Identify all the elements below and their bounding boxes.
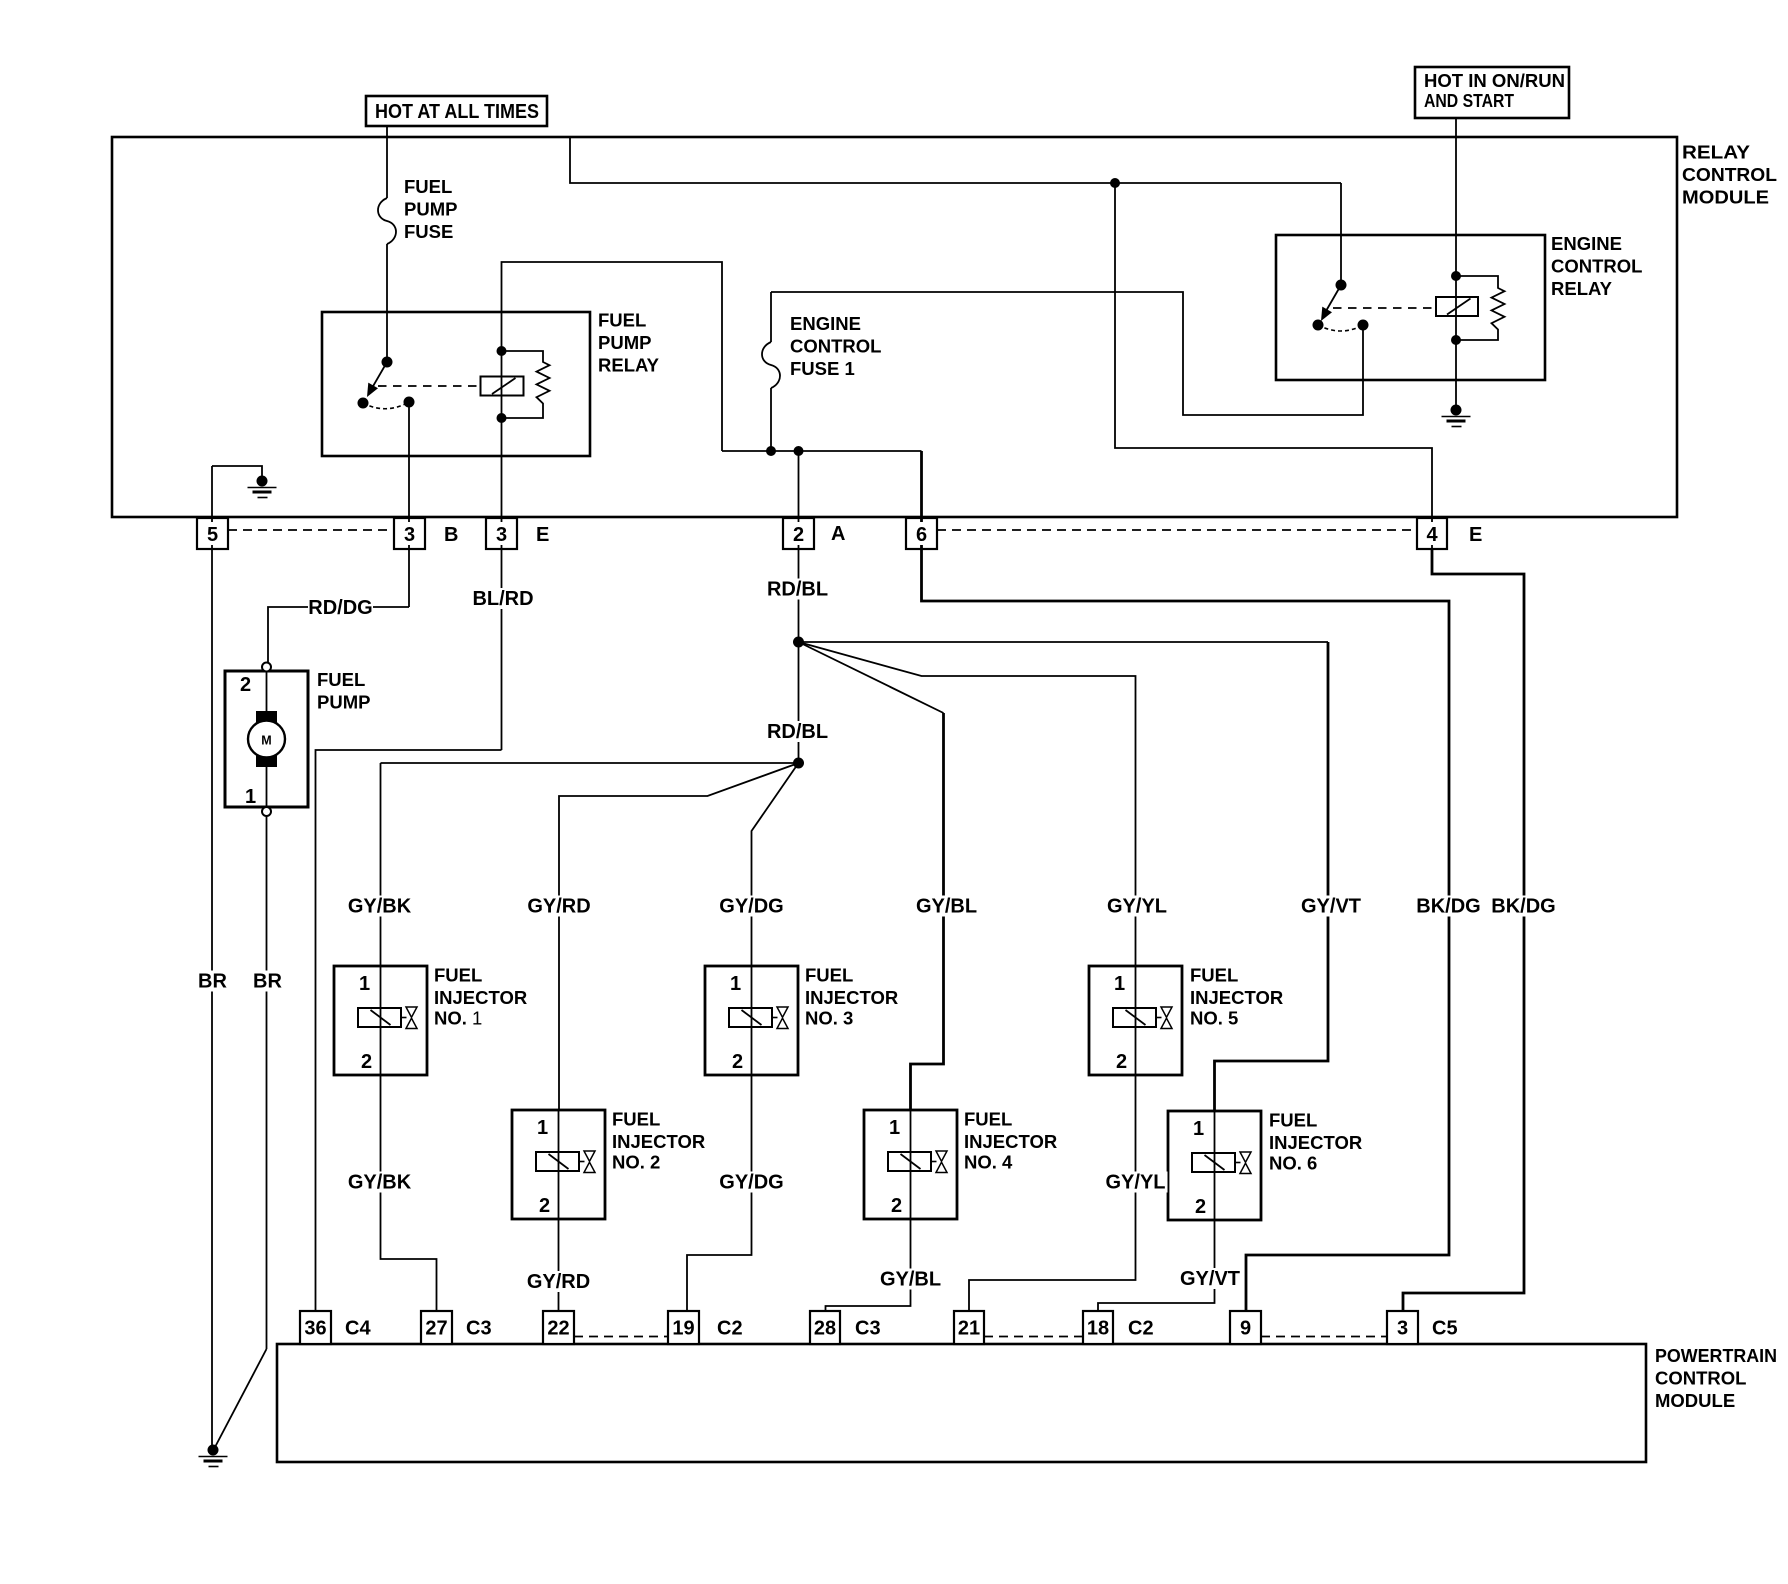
svg-text:INJECTOR: INJECTOR xyxy=(1269,1132,1362,1153)
svg-text:FUEL: FUEL xyxy=(612,1109,660,1130)
svg-text:INJECTOR: INJECTOR xyxy=(805,987,898,1008)
label FUEL PUMP RELAY xyxy=(598,310,660,376)
wire splice 2 branch to fuel injector 3 xyxy=(752,763,799,966)
svg-text:ENGINE: ENGINE xyxy=(1551,233,1622,254)
svg-text:3: 3 xyxy=(496,524,507,546)
svg-text:FUEL: FUEL xyxy=(1190,965,1238,986)
svg-text:RD/DG: RD/DG xyxy=(308,597,372,619)
svg-text:27: 27 xyxy=(425,1318,447,1340)
wire fuel pump relay switch arm with arrowhead xyxy=(367,362,387,397)
svg-text:INJECTOR: INJECTOR xyxy=(1190,987,1283,1008)
pin port 3 B box of relay control module xyxy=(394,518,425,549)
svg-text:M: M xyxy=(261,734,271,748)
svg-text:BL/RD: BL/RD xyxy=(472,588,533,610)
ground chassis ground bottom left xyxy=(199,1445,228,1467)
svg-text:MODULE: MODULE xyxy=(1682,187,1769,208)
label wire GY/BK feed xyxy=(348,896,412,918)
label wire RD/DG xyxy=(308,597,373,619)
wire dashed connector link port 5 to port 3 xyxy=(228,529,394,531)
node engine control relay switch common terminal xyxy=(1336,280,1347,291)
node fuel pump relay contact output xyxy=(404,397,415,408)
label FUEL INJECTOR NO. 2 xyxy=(612,1109,705,1173)
component FUEL PUMP box xyxy=(225,671,308,807)
module POWERTRAIN CONTROL MODULE xyxy=(277,1344,1646,1462)
svg-text:FUEL: FUEL xyxy=(598,310,646,331)
wire splice 2 branch to fuel injector 1 xyxy=(381,763,799,966)
wire junction to port 4 xyxy=(1115,183,1432,549)
svg-text:PUMP: PUMP xyxy=(404,199,457,220)
svg-text:GY/BK: GY/BK xyxy=(348,896,412,918)
wire ignition feed HOT IN ON/RUN to engine control relay coil xyxy=(1455,118,1457,276)
svg-text:1: 1 xyxy=(889,1117,900,1139)
svg-text:C2: C2 xyxy=(717,1318,743,1340)
svg-text:1: 1 xyxy=(537,1117,548,1139)
wire splice 1 branch to fuel injector 4 xyxy=(799,642,944,1110)
svg-text:NO. 1: NO. 1 xyxy=(434,1008,482,1029)
injector FUEL INJECTOR NO. 3 xyxy=(705,966,798,1075)
svg-text:FUSE 1: FUSE 1 xyxy=(790,358,855,379)
resistor engine control relay suppression resistor xyxy=(1456,276,1505,340)
wire splice 1 to splice 2 xyxy=(798,642,800,763)
pin port 3 C5 box of powertrain control module xyxy=(1387,1311,1418,1344)
svg-text:18: 18 xyxy=(1087,1318,1109,1340)
wire BR from port 5 to ground xyxy=(211,466,213,1448)
label FUEL INJECTOR NO. 6 xyxy=(1269,1110,1362,1174)
wire dashed connector link port 6 to port 4 xyxy=(937,529,1417,531)
svg-text:GY/YL: GY/YL xyxy=(1105,1172,1165,1194)
svg-text:FUEL: FUEL xyxy=(434,965,482,986)
pin port 28 C3 box of powertrain control module xyxy=(810,1311,840,1344)
wire fuel pump relay coil vertical xyxy=(501,351,503,418)
svg-text:RD/BL: RD/BL xyxy=(767,579,828,601)
wire dashed connector link port 21 to port 18 xyxy=(984,1336,1083,1338)
svg-text:FUSE: FUSE xyxy=(404,221,453,242)
coil fuel pump relay coil box xyxy=(481,377,524,396)
wire fuel pump relay coil top to junction rail xyxy=(502,262,723,451)
svg-text:HOT IN ON/RUN: HOT IN ON/RUN xyxy=(1424,70,1565,91)
node splice 1 RD/BL xyxy=(793,637,804,648)
wire dashed connector link port 9 to port 3 xyxy=(1261,1336,1387,1338)
svg-text:C2: C2 xyxy=(1128,1318,1154,1340)
wire BR from fuel pump pin 1 toward ground xyxy=(214,816,267,1449)
pin digit cell port 5 xyxy=(205,522,221,546)
wire dashed actuation link engine control relay xyxy=(1333,307,1436,309)
injector FUEL INJECTOR NO. 4 xyxy=(864,1110,957,1219)
node splice 2 RD/BL xyxy=(793,758,804,769)
svg-text:MODULE: MODULE xyxy=(1655,1390,1735,1411)
svg-text:2: 2 xyxy=(240,674,251,696)
pin port 36 C4 box of powertrain control module xyxy=(300,1311,331,1344)
label box HOT AT ALL TIMES xyxy=(366,96,547,126)
svg-text:5: 5 xyxy=(207,524,218,546)
wire engine control relay coil vertical to ground xyxy=(1455,276,1457,408)
module RELAY CONTROL MODULE xyxy=(112,137,1677,517)
label wire GY/VT return xyxy=(1178,1268,1242,1290)
svg-text:GY/DG: GY/DG xyxy=(719,1172,783,1194)
wire GY/VT fuel injector 6 pin 2 to port 18 xyxy=(1098,1220,1215,1311)
label wire GY/YL feed xyxy=(1105,896,1169,918)
svg-text:B: B xyxy=(444,524,458,546)
wire GY/DG fuel injector 3 pin 2 to port 19 xyxy=(687,1075,752,1311)
label ENGINE CONTROL RELAY xyxy=(1551,233,1642,299)
svg-text:RELAY: RELAY xyxy=(598,355,660,376)
svg-text:BR: BR xyxy=(198,971,227,993)
svg-text:A: A xyxy=(831,523,845,545)
pin port 19 C2 box of powertrain control module xyxy=(668,1311,699,1344)
label wire GY/BL return xyxy=(879,1269,943,1291)
node junction on inner feed xyxy=(1110,178,1120,188)
wire GY/YL fuel injector 5 pin 2 to port 21 xyxy=(969,1075,1136,1311)
svg-text:1: 1 xyxy=(1114,973,1125,995)
injector FUEL INJECTOR NO. 1 xyxy=(334,966,427,1075)
svg-text:GY/VT: GY/VT xyxy=(1301,896,1361,918)
node fuel pump relay coil top terminal xyxy=(497,346,507,356)
pin digit cell port 6 xyxy=(914,522,930,546)
pin port 9 box of powertrain control module xyxy=(1230,1311,1261,1344)
svg-text:CONTROL: CONTROL xyxy=(1682,164,1777,185)
wire BK/DG from port 6 to port 9 xyxy=(922,451,1450,1311)
svg-text:FUEL: FUEL xyxy=(964,1109,1012,1130)
pin port 3 E box of relay control module xyxy=(486,518,517,549)
pin digit cell port 4 E xyxy=(1424,522,1440,546)
wire fuel pump relay output through port 3 B xyxy=(408,402,410,607)
node engine control relay contact NC xyxy=(1313,320,1324,331)
svg-text:FUEL: FUEL xyxy=(404,176,452,197)
node junction rail to port 2 xyxy=(794,446,804,456)
svg-text:3: 3 xyxy=(404,524,415,546)
wire splice 2 branch to fuel injector 2 xyxy=(559,763,799,1110)
label FUEL INJECTOR NO. 3 xyxy=(805,965,898,1029)
wire inner feed drop to engine control relay switch xyxy=(1340,183,1342,285)
label wire GY/VT feed xyxy=(1299,896,1363,918)
svg-text:GY/DG: GY/DG xyxy=(719,896,783,918)
svg-text:GY/RD: GY/RD xyxy=(527,896,590,918)
label POWERTRAIN CONTROL MODULE xyxy=(1655,1345,1777,1411)
svg-text:C4: C4 xyxy=(345,1318,371,1340)
svg-text:2: 2 xyxy=(361,1051,372,1073)
svg-text:E: E xyxy=(1469,524,1482,546)
svg-text:GY/RD: GY/RD xyxy=(527,1271,590,1293)
wire engine control relay switch arm with arrowhead xyxy=(1321,285,1341,321)
wire GY/BL fuel injector 4 pin 2 to port 28 xyxy=(826,1219,911,1311)
svg-text:6: 6 xyxy=(916,524,927,546)
injector FUEL INJECTOR NO. 2 xyxy=(512,1110,605,1219)
svg-text:19: 19 xyxy=(672,1318,694,1340)
svg-text:NO. 6: NO. 6 xyxy=(1269,1153,1317,1174)
svg-text:22: 22 xyxy=(547,1318,569,1340)
wire fuel pump internal bottom lead xyxy=(266,765,268,807)
wire fuel pump internal top lead xyxy=(266,672,268,714)
wire battery feed to fuel pump fuse xyxy=(386,126,388,198)
svg-text:GY/VT: GY/VT xyxy=(1180,1268,1240,1290)
fuse FUEL PUMP FUSE xyxy=(378,198,396,244)
svg-text:E: E xyxy=(536,524,549,546)
svg-text:1: 1 xyxy=(359,973,370,995)
label FUEL PUMP xyxy=(317,669,370,713)
label wire BR right xyxy=(252,971,284,993)
resistor fuel pump relay suppression resistor xyxy=(502,351,550,418)
node junction rail to fuse 1 xyxy=(766,446,776,456)
label FUEL INJECTOR NO. 4 xyxy=(964,1109,1057,1173)
wire engine control relay output to engine control fuse 1 xyxy=(771,292,1363,415)
svg-text:INJECTOR: INJECTOR xyxy=(964,1131,1057,1152)
svg-text:FUEL: FUEL xyxy=(805,965,853,986)
svg-text:1: 1 xyxy=(1193,1118,1204,1140)
wire dashed travel arc of fuel pump relay switch xyxy=(363,402,409,409)
svg-text:PUMP: PUMP xyxy=(598,332,651,353)
svg-text:INJECTOR: INJECTOR xyxy=(612,1131,705,1152)
wire inner feed from module top edge xyxy=(570,138,1341,183)
svg-text:21: 21 xyxy=(958,1318,980,1340)
svg-text:C5: C5 xyxy=(1432,1318,1458,1340)
pin port 22 box of powertrain control module xyxy=(543,1311,574,1344)
wire dashed actuation link fuel pump relay xyxy=(378,385,481,387)
wire dashed connector link port 22 to port 19 xyxy=(574,1336,668,1338)
svg-text:NO. 5: NO. 5 xyxy=(1190,1008,1238,1029)
label FUEL INJECTOR NO. 1 xyxy=(434,965,527,1029)
label FUEL INJECTOR NO. 5 xyxy=(1190,965,1283,1029)
svg-text:FUEL: FUEL xyxy=(1269,1110,1317,1131)
svg-text:AND START: AND START xyxy=(1424,90,1515,111)
svg-text:9: 9 xyxy=(1240,1318,1251,1340)
pin port 2 A box of relay control module xyxy=(783,518,814,549)
injector FUEL INJECTOR NO. 5 xyxy=(1089,966,1182,1075)
ground relay control module internal ground xyxy=(248,476,277,498)
label FUEL PUMP FUSE xyxy=(404,176,457,242)
label wire BL/RD xyxy=(471,588,535,610)
label ENGINE CONTROL FUSE 1 xyxy=(790,313,881,379)
svg-text:2: 2 xyxy=(891,1195,902,1217)
wire RD/BL from port 2 A to splice 1 xyxy=(798,451,800,642)
label wire GY/BL feed xyxy=(915,896,979,918)
node engine control relay contact output xyxy=(1358,320,1369,331)
svg-text:BR: BR xyxy=(253,971,282,993)
svg-text:2: 2 xyxy=(1116,1051,1127,1073)
pin port 18 C2 box of powertrain control module xyxy=(1083,1311,1113,1344)
wire BL/RD from port 3 E to port 36 C4 xyxy=(316,750,502,1311)
label wire GY/BK return xyxy=(348,1172,412,1194)
svg-text:28: 28 xyxy=(814,1318,836,1340)
pin port 27 C3 box of powertrain control module xyxy=(421,1311,452,1344)
pin port 4 E box of relay control module xyxy=(1417,518,1447,549)
pin fuel pump pin 1 terminal xyxy=(245,786,271,816)
svg-text:CONTROL: CONTROL xyxy=(790,336,881,357)
label wire GY/RD feed xyxy=(527,896,591,918)
svg-text:3: 3 xyxy=(1397,1318,1408,1340)
wire BK/DG from port 4 to port 3 C5 xyxy=(1403,549,1524,1311)
pin digit cell port 3 B xyxy=(402,522,418,546)
svg-text:2: 2 xyxy=(793,524,804,546)
label wire RD/BL lower xyxy=(766,721,830,743)
svg-text:RELAY: RELAY xyxy=(1551,278,1613,299)
node fuel pump relay switch common terminal xyxy=(382,357,393,368)
svg-text:POWERTRAIN: POWERTRAIN xyxy=(1655,1345,1777,1366)
svg-text:GY/YL: GY/YL xyxy=(1107,896,1167,918)
wire junction rail xyxy=(722,450,922,452)
svg-text:INJECTOR: INJECTOR xyxy=(434,987,527,1008)
label wire RD/BL upper xyxy=(766,579,830,601)
label wire GY/RD return xyxy=(527,1271,591,1293)
svg-text:BK/DG: BK/DG xyxy=(1416,896,1480,918)
label wire BK/DG right xyxy=(1491,896,1555,918)
svg-text:NO. 3: NO. 3 xyxy=(805,1008,853,1029)
label wire GY/DG feed xyxy=(719,896,783,918)
fuse ENGINE CONTROL FUSE 1 xyxy=(762,292,780,451)
pin digit cell port 2 A xyxy=(791,522,807,546)
node fuel pump relay contact NC xyxy=(358,398,369,409)
label wire GY/DG return xyxy=(719,1172,783,1194)
wire splice 1 branch to fuel injector 5 xyxy=(799,642,1136,966)
svg-text:1: 1 xyxy=(730,973,741,995)
node engine control relay coil bottom terminal xyxy=(1451,335,1461,345)
svg-text:ENGINE: ENGINE xyxy=(790,313,861,334)
svg-text:1: 1 xyxy=(245,786,256,808)
svg-text:GY/BK: GY/BK xyxy=(348,1172,412,1194)
svg-text:2: 2 xyxy=(732,1051,743,1073)
svg-text:2: 2 xyxy=(539,1195,550,1217)
wire fuse to relay switch common xyxy=(386,244,388,362)
pin digit cell port 3 E xyxy=(494,522,510,546)
wire RD/DG jog from port 3 B to fuel pump pin 2 xyxy=(268,607,409,663)
ground engine control relay coil ground xyxy=(1442,405,1471,427)
pin fuel pump pin 2 terminal xyxy=(240,663,271,697)
svg-text:NO. 4: NO. 4 xyxy=(964,1152,1013,1173)
svg-text:RD/BL: RD/BL xyxy=(767,721,828,743)
relay ENGINE CONTROL RELAY xyxy=(1276,235,1545,380)
svg-text:C3: C3 xyxy=(466,1318,492,1340)
svg-text:CONTROL: CONTROL xyxy=(1551,256,1642,277)
wire ground stub from port 5 xyxy=(212,466,262,477)
wire splice 1 branch to fuel injector 6 xyxy=(799,642,1329,1111)
wire GY/RD fuel injector 2 pin 2 to port 22 xyxy=(558,1219,560,1311)
svg-text:GY/BL: GY/BL xyxy=(880,1269,941,1291)
injector FUEL INJECTOR NO. 6 xyxy=(1168,1111,1261,1220)
pin port 6 box of relay control module xyxy=(906,518,937,549)
svg-text:NO. 2: NO. 2 xyxy=(612,1152,660,1173)
svg-text:PUMP: PUMP xyxy=(317,692,370,713)
svg-text:BK/DG: BK/DG xyxy=(1491,896,1555,918)
label box HOT IN ON/RUN AND START xyxy=(1415,67,1569,118)
coil engine control relay coil box xyxy=(1436,297,1478,316)
svg-text:4: 4 xyxy=(1426,524,1438,546)
label wire GY/YL return xyxy=(1104,1172,1168,1194)
wire dashed travel arc of engine control relay switch xyxy=(1318,325,1363,331)
svg-text:GY/BL: GY/BL xyxy=(916,896,977,918)
label wire BK/DG left xyxy=(1416,896,1480,918)
pin port 21 box of powertrain control module xyxy=(954,1311,984,1344)
relay FUEL PUMP RELAY xyxy=(322,312,590,456)
wire GY/BK fuel injector 1 pin 2 to port 27 xyxy=(381,1075,437,1311)
svg-text:C3: C3 xyxy=(855,1318,881,1340)
wire fuel pump relay coil bottom through port 3 E to fuel pump branch xyxy=(501,418,503,750)
svg-text:RELAY: RELAY xyxy=(1682,142,1751,163)
svg-text:36: 36 xyxy=(304,1318,326,1340)
node engine control relay coil top terminal xyxy=(1451,271,1461,281)
svg-text:FUEL: FUEL xyxy=(317,669,365,690)
label wire BR left xyxy=(197,971,229,993)
svg-text:CONTROL: CONTROL xyxy=(1655,1368,1746,1389)
motor fuel pump motor M xyxy=(248,711,285,767)
pin port 5 box of relay control module xyxy=(197,518,228,549)
label RELAY CONTROL MODULE xyxy=(1682,142,1777,208)
node fuel pump relay coil bottom terminal xyxy=(497,413,507,423)
svg-text:2: 2 xyxy=(1195,1196,1206,1218)
svg-text:HOT AT ALL TIMES: HOT AT ALL TIMES xyxy=(375,101,539,123)
